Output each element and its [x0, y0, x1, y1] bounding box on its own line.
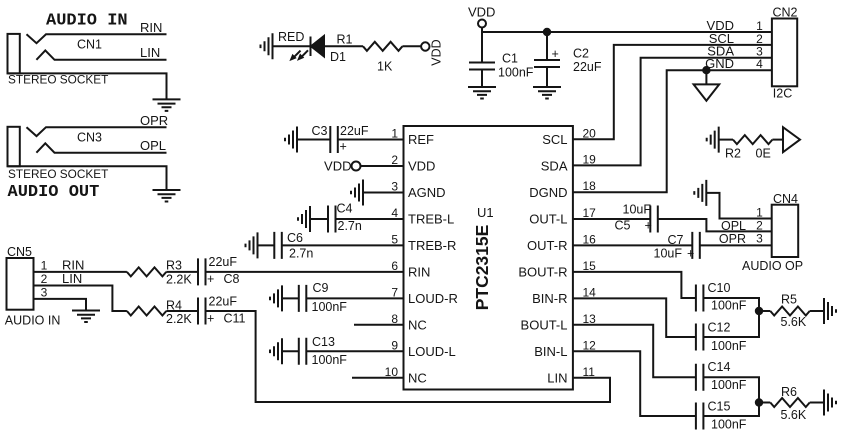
resistor R1 [363, 42, 402, 51]
svg-text:AGND: AGND [408, 185, 446, 200]
wire SDA CN2 to U1 pin 19 [573, 58, 772, 166]
svg-text:C7: C7 [668, 233, 684, 247]
ground at C13 [270, 338, 282, 364]
svg-text:5: 5 [391, 232, 398, 246]
ground below C1 [468, 87, 496, 99]
svg-text:OUT-R: OUT-R [527, 238, 567, 253]
svg-text:1K: 1K [377, 60, 393, 74]
junction GND [703, 67, 709, 73]
wire CN5 pin 3 to ground [34, 299, 87, 311]
wire node to R6 [759, 402, 770, 404]
svg-text:NC: NC [408, 317, 427, 332]
svg-text:BIN-R: BIN-R [532, 291, 567, 306]
svg-text:C3: C3 [312, 124, 328, 138]
svg-text:10uF: 10uF [623, 203, 652, 217]
wire node to R5 [759, 310, 770, 312]
capacitor C10 [696, 285, 704, 312]
svg-text:DGND: DGND [529, 185, 567, 200]
svg-text:R3: R3 [166, 259, 182, 273]
wire ground to CN4 pin 1 [706, 193, 771, 219]
wire VDD to C1 [481, 32, 483, 63]
svg-text:100nF: 100nF [711, 339, 747, 353]
svg-text:AUDIO OUT: AUDIO OUT [8, 183, 100, 202]
capacitor C12 [696, 324, 704, 351]
svg-text:TREB-R: TREB-R [408, 238, 456, 253]
svg-text:9: 9 [391, 338, 398, 352]
svg-text:OPL: OPL [140, 138, 166, 153]
junction VDD/C2 [544, 29, 550, 35]
wire VDD to U1 pin 2 [361, 165, 404, 167]
svg-text:NC: NC [408, 370, 427, 385]
LED D1 [310, 37, 312, 57]
svg-text:BIN-L: BIN-L [534, 344, 567, 359]
wire U1 pin 15 to C10 [573, 272, 696, 298]
svg-text:C10: C10 [708, 281, 731, 295]
svg-text:AUDIO IN: AUDIO IN [5, 314, 61, 328]
capacitor C1 [469, 63, 495, 70]
svg-text:D1: D1 [330, 50, 346, 64]
wire C9 to U1 pin 7 [306, 297, 404, 299]
svg-text:LIN: LIN [62, 271, 82, 286]
svg-text:22uF: 22uF [340, 124, 369, 138]
wire LIN contact of CN1 [36, 50, 166, 59]
svg-text:REF: REF [408, 132, 434, 147]
wire U1 pin 10 NC stub [352, 377, 404, 379]
wire C8 to U1 pin 6 RIN [206, 271, 405, 273]
resistor R4 [127, 307, 166, 316]
svg-text:10uF: 10uF [654, 247, 683, 261]
capacitor C8 [198, 258, 206, 285]
svg-text:VDD: VDD [324, 159, 351, 174]
wire U1 pin 12 to C15 [573, 351, 696, 416]
svg-text:OPR: OPR [719, 232, 746, 246]
svg-text:2: 2 [391, 153, 398, 167]
svg-text:6: 6 [391, 259, 398, 273]
wire ground to D1 cathode [273, 45, 311, 47]
svg-text:22uF: 22uF [209, 295, 238, 309]
svg-text:5.6K: 5.6K [781, 315, 807, 329]
svg-text:5.6K: 5.6K [781, 408, 807, 422]
wire C1 to ground [481, 70, 483, 88]
ground at LED D1 [261, 33, 273, 59]
wire ground to C9 [282, 297, 299, 299]
svg-text:BOUT-R: BOUT-R [518, 265, 567, 280]
op-amp U1 PTC2315E body [404, 126, 573, 390]
svg-text:100nF: 100nF [498, 66, 534, 80]
ground below C2 [533, 87, 561, 99]
capacitor C4 [328, 206, 336, 233]
ground triangle at CN2 GND [694, 70, 720, 101]
ground below CN1 [153, 99, 181, 111]
svg-text:2.7n: 2.7n [338, 219, 362, 233]
svg-text:LOUD-R: LOUD-R [408, 291, 458, 306]
svg-text:CN5: CN5 [7, 245, 32, 259]
svg-text:12: 12 [583, 338, 597, 352]
svg-text:13: 13 [583, 312, 597, 326]
wire U1 pin 8 NC stub [354, 324, 404, 326]
svg-text:C11: C11 [224, 312, 246, 326]
svg-text:C8: C8 [224, 272, 240, 286]
wire ground to C13 [282, 350, 299, 352]
wire LIN net C11 to U1 pin 11 [206, 311, 611, 402]
svg-text:OPR: OPR [140, 113, 168, 128]
wire R2 to buffer triangle [772, 139, 783, 141]
svg-text:AUDIO OP: AUDIO OP [742, 259, 803, 273]
ground at C3 [285, 127, 297, 153]
wire U1 pin 17 to C5 [573, 218, 650, 220]
svg-text:100nF: 100nF [312, 353, 348, 367]
svg-text:+: + [207, 312, 214, 326]
svg-text:2.7n: 2.7n [289, 247, 313, 261]
svg-text:RIN: RIN [140, 20, 162, 35]
svg-text:CN1: CN1 [77, 38, 102, 52]
resistor R2 [733, 135, 772, 144]
svg-text:C9: C9 [313, 281, 329, 295]
svg-text:0E: 0E [756, 147, 771, 161]
svg-text:16: 16 [583, 232, 597, 246]
capacitor C2 [534, 60, 560, 67]
svg-text:3: 3 [756, 231, 763, 245]
svg-text:C15: C15 [708, 400, 731, 414]
svg-text:18: 18 [583, 179, 597, 193]
svg-text:R1: R1 [337, 33, 353, 47]
wire R1 to VDD terminal [402, 45, 421, 47]
wire ground to C4 [310, 218, 328, 220]
svg-text:22uF: 22uF [573, 60, 602, 74]
svg-text:1: 1 [391, 127, 398, 141]
ground at R2 [707, 127, 719, 153]
svg-text:C6: C6 [287, 231, 303, 245]
ground at R5 [824, 298, 836, 324]
wire VDD rail [482, 28, 772, 33]
svg-text:+: + [340, 140, 347, 154]
svg-text:2: 2 [41, 272, 48, 286]
svg-text:100nF: 100nF [711, 418, 747, 432]
svg-text:100nF: 100nF [711, 299, 747, 313]
svg-text:C4: C4 [337, 202, 353, 216]
svg-text:U1: U1 [477, 205, 494, 220]
connector CN1 stereo socket body [8, 34, 20, 74]
wire U1 pin 13 to C14 [573, 325, 696, 377]
capacitor C9 [299, 285, 307, 312]
wire ground to U1 pin 3 [363, 192, 404, 194]
svg-text:LOUD-L: LOUD-L [408, 344, 456, 359]
connector CN3 stereo socket body [8, 127, 20, 167]
wire R5 to ground [810, 310, 824, 312]
resistor R3 [127, 267, 166, 276]
svg-text:STEREO SOCKET: STEREO SOCKET [8, 167, 108, 181]
wire C3 to U1 pin 1 [338, 139, 404, 141]
wire ground to C6 [258, 244, 275, 246]
svg-text:VDD: VDD [430, 39, 444, 65]
wire CN5 pin 2 to R4 [34, 286, 127, 312]
svg-text:CN3: CN3 [77, 131, 102, 145]
svg-text:11: 11 [583, 365, 596, 379]
wire R4 to C11 [166, 310, 198, 312]
svg-text:1: 1 [41, 258, 48, 272]
svg-text:+: + [645, 219, 652, 233]
svg-text:STEREO SOCKET: STEREO SOCKET [8, 73, 108, 87]
svg-text:17: 17 [583, 206, 597, 220]
ground at R6 [824, 390, 836, 416]
svg-text:+: + [687, 247, 694, 261]
open triangle terminal [783, 127, 800, 152]
junction R5 node [756, 308, 762, 314]
svg-text:22uF: 22uF [209, 255, 238, 269]
svg-text:RED: RED [278, 30, 304, 44]
wire OPL contact of CN3 [36, 143, 166, 152]
wire C13 to U1 pin 9 [306, 350, 404, 352]
svg-text:LIN: LIN [547, 370, 567, 385]
svg-text:2.2K: 2.2K [166, 312, 192, 326]
wire C6 to U1 pin 5 [282, 244, 404, 246]
wire C7 to CN4 pin 3 OPR [700, 244, 772, 246]
svg-text:20: 20 [583, 126, 597, 140]
svg-text:CN2: CN2 [773, 6, 798, 20]
svg-text:SCL: SCL [542, 132, 567, 147]
svg-text:C5: C5 [615, 219, 631, 233]
capacitor C6 [274, 232, 282, 259]
svg-text:7: 7 [391, 285, 398, 299]
wire C14 to R6 node [703, 377, 759, 402]
ground at C6 [246, 232, 258, 258]
wire ground to R2 [719, 139, 733, 141]
ground at C4 [298, 206, 310, 232]
ground at U1 pin 3 AGND [351, 180, 363, 206]
wire R3 to C8 [166, 271, 198, 273]
svg-text:C2: C2 [573, 47, 589, 61]
capacitor C7 [692, 232, 700, 259]
svg-text:19: 19 [583, 152, 597, 166]
svg-text:PTC2315E: PTC2315E [472, 225, 492, 311]
wire C15 to R6 node [703, 403, 759, 417]
junction R6 node [756, 399, 762, 405]
wire C5 to CN4 pin 2 OPL [658, 219, 772, 231]
wire CN1 sleeve [8, 73, 167, 99]
wire ground to C3 [297, 139, 330, 141]
svg-text:1: 1 [756, 206, 763, 220]
ground at CN5 pin 3 [72, 311, 100, 323]
svg-text:RIN: RIN [408, 265, 430, 280]
resistor R5 [770, 307, 809, 316]
wire U1 pin 14 to C12 [573, 298, 696, 337]
svg-text:100nF: 100nF [711, 378, 747, 392]
svg-text:4: 4 [391, 206, 398, 220]
svg-text:2: 2 [756, 218, 763, 232]
svg-text:C1: C1 [502, 52, 518, 66]
svg-text:100nF: 100nF [312, 300, 348, 314]
wire C10 to R5 node [703, 298, 759, 311]
svg-text:BOUT-L: BOUT-L [521, 317, 568, 332]
wire C4 to U1 pin 4 [336, 218, 405, 220]
svg-text:+: + [207, 272, 214, 286]
capacitor C3 [330, 126, 338, 153]
ground at CN4 pin 1 [694, 180, 706, 206]
wire R6 to ground [810, 402, 824, 404]
svg-text:R6: R6 [781, 385, 797, 399]
svg-text:VDD: VDD [408, 159, 435, 174]
power terminal VDD (LED) [421, 42, 429, 50]
ground at C9 [270, 285, 282, 311]
wire CN5 pin 1 to R3 [34, 271, 127, 273]
svg-text:LIN: LIN [140, 45, 160, 60]
wire OPR contact of CN3 [27, 127, 167, 136]
capacitor C11 [198, 298, 206, 325]
svg-text:C12: C12 [708, 321, 731, 335]
svg-text:3: 3 [41, 285, 48, 299]
capacitor C15 [696, 403, 704, 430]
svg-text:8: 8 [391, 312, 398, 326]
capacitor C14 [696, 364, 704, 391]
wire D1 to R1 [324, 45, 363, 47]
resistor R6 [770, 398, 809, 407]
svg-text:R2: R2 [725, 147, 741, 161]
wire GND CN2 to U1 pin 18 [573, 70, 772, 192]
wire RIN contact of CN1 [27, 34, 167, 43]
capacitor C13 [299, 338, 307, 365]
svg-text:15: 15 [583, 259, 597, 273]
svg-text:14: 14 [583, 285, 597, 299]
wire CN3 sleeve [8, 166, 167, 190]
svg-text:C14: C14 [708, 360, 731, 374]
svg-text:C13: C13 [312, 335, 335, 349]
wire U1 pin 16 to C7 [573, 244, 692, 246]
svg-text:OPL: OPL [721, 219, 746, 233]
svg-text:OUT-L: OUT-L [529, 212, 567, 227]
svg-text:3: 3 [391, 180, 398, 194]
capacitor C5 [650, 206, 658, 233]
svg-text:VDD: VDD [468, 5, 495, 20]
wire junction to C2 [546, 32, 548, 60]
wire C12 to R5 node [703, 311, 759, 337]
ground below CN3 [153, 190, 181, 202]
svg-text:SDA: SDA [541, 159, 568, 174]
svg-text:AUDIO IN: AUDIO IN [46, 12, 128, 31]
wire SCL CN2 to U1 pin 20 [573, 45, 772, 139]
svg-text:R5: R5 [781, 293, 797, 307]
svg-text:10: 10 [385, 365, 399, 379]
svg-text:2.2K: 2.2K [166, 273, 192, 287]
svg-text:I2C: I2C [773, 87, 792, 101]
svg-text:TREB-L: TREB-L [408, 212, 454, 227]
svg-text:4: 4 [756, 57, 763, 71]
wire C2 to ground [546, 67, 548, 87]
svg-text:+: + [552, 47, 559, 61]
